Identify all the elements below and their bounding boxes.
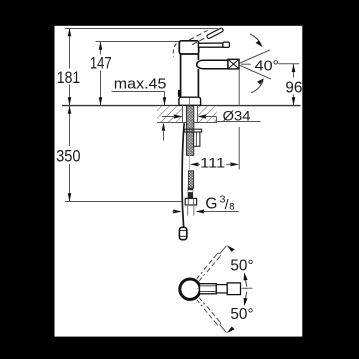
- lever grip top view: [227, 283, 240, 295]
- deck top line: [62, 105, 183, 107]
- top view lever neck: [200, 284, 217, 294]
- deck hatch left: [157, 106, 182, 122]
- connection tube: [187, 205, 189, 216]
- svg-text:G: G: [205, 196, 217, 213]
- dim 147 bottom arrow: [99, 97, 103, 105]
- solid lever bar: [198, 43, 223, 47]
- ref line bottom (350 end, y=201.2): [65, 201, 182, 203]
- spray line upper: [239, 50, 270, 63]
- arc arrow bottom (40deg): [251, 81, 263, 93]
- mounting tab: [194, 132, 200, 146]
- svg-text:50°: 50°: [230, 258, 253, 275]
- max.45 up arrow below deck: [162, 123, 166, 131]
- 50deg tick line: [243, 287, 253, 289]
- 96 top ref line: [278, 63, 299, 65]
- arc arrow top (40deg): [250, 34, 261, 45]
- label dia34 with leader: [198, 114, 207, 118]
- svg-text:96: 96: [285, 79, 302, 96]
- lever end cap: [223, 42, 230, 47]
- 50deg lower arc: [245, 292, 246, 300]
- threaded nipple below braid: [188, 188, 193, 198]
- svg-text:350: 350: [56, 147, 81, 166]
- dashed swing arc left of head: [173, 44, 176, 57]
- svg-text:50°: 50°: [230, 306, 253, 323]
- base flange: [179, 97, 201, 105]
- top view centerline: [197, 288, 248, 290]
- deck bottom line: [157, 122, 217, 124]
- svg-text:40°: 40°: [255, 57, 279, 74]
- ref line top (181 reference, y=28): [65, 28, 218, 30]
- dashed lever lower (50deg): [197, 298, 228, 334]
- svg-text:181: 181: [57, 68, 80, 87]
- svg-text:8: 8: [229, 201, 234, 212]
- shank through deck (braided): [186, 106, 193, 156]
- dim 181 bottom arrow: [68, 97, 72, 105]
- dim 350 vertical line: [69, 106, 71, 147]
- spray line lower: [239, 65, 271, 79]
- dim 96 bottom arrow: [292, 97, 296, 105]
- dim 111: [189, 152, 191, 170]
- 50deg upper arc: [245, 279, 246, 287]
- dim 350 bottom arrow: [68, 193, 72, 201]
- aerator box with X: [228, 59, 239, 69]
- dim 147 vertical line: [100, 42, 102, 55]
- hex nut G3/8: [185, 198, 196, 205]
- faucet body: [180, 54, 182, 98]
- dim 96 top arrow: [292, 64, 296, 72]
- faucet centerline: [189, 98, 191, 106]
- faucet head cap: [179, 41, 198, 54]
- dim 350 top arrow: [68, 106, 72, 114]
- dim 147 top arrow: [99, 42, 103, 50]
- lever mid section: [216, 285, 227, 293]
- svg-text:Ø34: Ø34: [223, 109, 252, 124]
- deck hatch right: [198, 106, 217, 122]
- 50deg lower far arrowhead: [227, 327, 235, 334]
- hole edges in deck: [182, 106, 184, 123]
- dim 181 vertical line: [69, 29, 71, 69]
- spout arm: [197, 60, 228, 69]
- svg-text:max.45: max.45: [114, 76, 167, 93]
- dashed raised lever lines: [189, 30, 208, 40]
- svg-text:147: 147: [90, 54, 112, 73]
- svg-text:111: 111: [200, 155, 225, 171]
- 50deg upper far arrowhead: [227, 245, 235, 252]
- black nub on body left: [178, 90, 181, 97]
- flexible hose line: [182, 123, 184, 227]
- mounting washer plate below deck: [184, 129, 201, 132]
- dim 96 vertical: [293, 64, 295, 78]
- dim 181 top arrow: [68, 28, 72, 36]
- ref line 147 (y=41.3): [96, 41, 181, 43]
- raised lever grip (solid outline): [206, 28, 223, 39]
- white drawing sheet: [55, 26, 303, 337]
- leader stub to 40deg label: [241, 63, 251, 65]
- hose end fitting: [179, 227, 186, 239]
- dashed lever upper (50deg): [197, 245, 228, 281]
- max.45 down arrow: [163, 97, 167, 105]
- body circle: [180, 279, 200, 299]
- svg-text:/: /: [225, 197, 229, 212]
